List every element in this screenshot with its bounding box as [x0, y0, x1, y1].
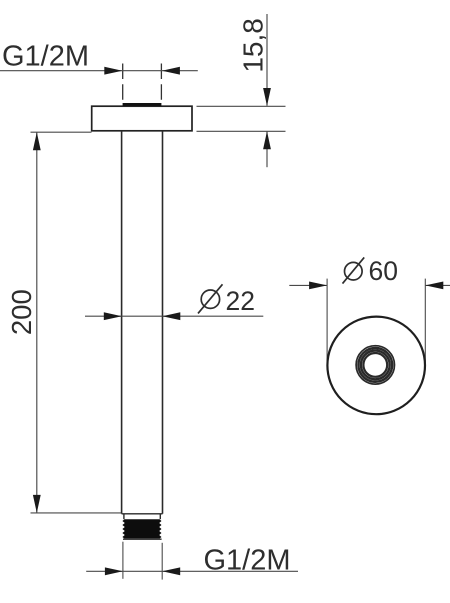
thread bottom edge	[123, 538, 162, 540]
dimension G1/2M (bottom) line	[86, 570, 298, 572]
arrow right-pointing at thread left	[105, 567, 123, 575]
svg-text:G1/2M: G1/2M	[204, 544, 291, 576]
tube left edge	[121, 131, 123, 514]
arrow right-pointing at circle left	[309, 282, 327, 290]
extension line circle right	[424, 279, 426, 365]
dimension 15,8 lower line	[266, 131, 268, 167]
thread stub end (thick line above flange)	[123, 103, 162, 106]
extension line circle left	[326, 279, 328, 365]
tube bottom edge	[122, 513, 163, 515]
extension line tube bottom left	[31, 512, 122, 514]
tube right edge	[162, 131, 164, 514]
arrow right-pointing at stub left	[104, 67, 122, 75]
arrow up-pointing at flange bottom	[263, 131, 271, 149]
stub hidden edge right (dashed)	[160, 64, 162, 103]
dimension 200 line	[36, 132, 38, 513]
svg-text:15,8: 15,8	[238, 18, 269, 73]
extension line flange bottom right	[197, 130, 286, 132]
arrow down-pointing at flange top	[263, 88, 271, 106]
svg-text:60: 60	[369, 256, 398, 286]
thread neck right	[159, 514, 161, 519]
stub hidden edge left (dashed)	[122, 64, 124, 103]
threaded section (black serrated block)	[122, 519, 161, 538]
dimension 15,8 upper line	[266, 14, 268, 106]
thread rings (top view)	[356, 346, 394, 384]
extension line thread left	[122, 542, 124, 579]
arrow down-pointing at tube bottom (200 bottom)	[33, 495, 41, 513]
dimension G1/2M (top) line	[0, 70, 198, 72]
thread neck left	[123, 514, 125, 519]
svg-text:G1/2M: G1/2M	[2, 41, 89, 73]
arrow left-pointing at thread right	[162, 567, 180, 575]
arrow left-pointing at tube right	[162, 312, 180, 320]
arrow left-pointing at circle right	[425, 282, 443, 290]
diameter symbol of 22	[198, 284, 223, 313]
arrow up-pointing at flange bottom (200 top)	[33, 132, 41, 150]
dimension diameter 60 line left	[289, 284, 327, 286]
svg-text:22: 22	[226, 286, 255, 316]
dimension diameter 22 line	[85, 315, 263, 317]
diameter symbol of 60	[343, 257, 365, 283]
arrow right-pointing at tube left	[104, 312, 122, 320]
svg-text:200: 200	[6, 289, 37, 335]
dimension diameter 60 line right	[425, 284, 450, 286]
extension line thread right	[161, 543, 163, 580]
extension line flange bottom left	[31, 131, 92, 133]
flange outer circle (top view)	[327, 317, 425, 415]
arrow left-pointing at stub right	[162, 67, 180, 75]
flange (ceiling plate, front view)	[92, 106, 192, 131]
extension line flange top right	[197, 105, 286, 107]
